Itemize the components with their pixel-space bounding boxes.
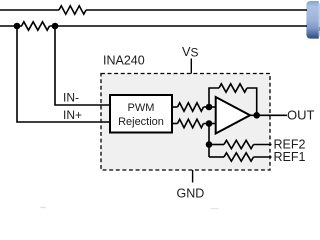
- svg-text:REF1: REF1: [274, 150, 306, 164]
- node: ref junction: [206, 141, 213, 148]
- svg-text:IN+: IN+: [63, 108, 82, 122]
- wire: REF2 to label: [254, 144, 272, 146]
- wire: left sense drop to IN+: [17, 26, 110, 122]
- faint cropped caption marks at bottom: [41, 207, 46, 208]
- wire: feedback loop up: [209, 88, 219, 107]
- INA240 dashed boundary box: [101, 74, 270, 171]
- wire: top supply line: [0, 9, 59, 11]
- wire: REF1 lead: [209, 156, 224, 158]
- resistor (feedback): [219, 84, 247, 92]
- svg-text:PWM: PWM: [128, 102, 155, 114]
- wire: REF2 lead: [209, 144, 224, 146]
- wire: VS lead: [190, 59, 192, 74]
- op-amp A1: [216, 97, 250, 134]
- node: minus input: [206, 104, 213, 111]
- wire: output: [250, 114, 287, 116]
- wire: to op-amp minus: [204, 106, 216, 108]
- svg-text:VS: VS: [182, 44, 199, 59]
- wire: plus input down to refs: [208, 124, 210, 158]
- motor (blue, cropped at right edge): [306, 1, 320, 39]
- wire: PWM out bottom: [172, 123, 178, 125]
- wire: PWM out top: [172, 106, 178, 108]
- svg-text:IN-: IN-: [63, 91, 79, 105]
- resistor (gain, bottom): [178, 119, 204, 127]
- junction dot (left of shunt): [14, 23, 21, 30]
- wire: second line left: [0, 25, 22, 27]
- junction dot (right of shunt): [52, 23, 59, 30]
- node: output: [253, 112, 260, 119]
- resistor (REF2): [224, 140, 254, 148]
- wire: top line to motor: [86, 9, 307, 11]
- resistor (REF1): [224, 153, 254, 161]
- wire: right sense drop to IN-: [55, 26, 110, 105]
- PWM Rejection block U1a: [110, 95, 172, 133]
- resistor (gain, top): [178, 103, 204, 111]
- shunt resistor: [22, 22, 50, 30]
- svg-text:Rejection: Rejection: [118, 116, 164, 128]
- resistor (top line): [59, 6, 86, 14]
- svg-text:INA240: INA240: [103, 54, 145, 68]
- svg-text:GND: GND: [177, 186, 205, 200]
- wire: second line to motor: [50, 25, 308, 27]
- wire: GND lead: [192, 170, 194, 183]
- svg-text:OUT: OUT: [287, 107, 315, 122]
- wire: to op-amp plus: [204, 123, 216, 125]
- node: plus input: [206, 120, 213, 127]
- wire: feedback loop down to output: [247, 88, 257, 115]
- wire: REF1 to label: [254, 156, 272, 158]
